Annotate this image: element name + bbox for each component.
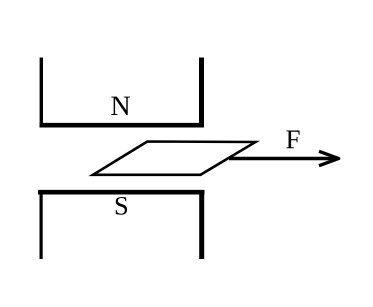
force arrow shaft — [229, 157, 334, 161]
label N — [111, 97, 130, 115]
label S — [116, 197, 127, 215]
magnet S-pole top horizontal — [38, 190, 205, 195]
force arrowhead — [319, 151, 339, 165]
conducting plate (parallelogram) — [93, 142, 256, 175]
label F — [286, 131, 299, 149]
magnet S-pole right vertical — [199, 190, 204, 259]
magnet N-pole bottom horizontal — [40, 123, 205, 128]
magnet S-pole left vertical — [39, 190, 42, 259]
magnet N-pole left vertical — [40, 58, 43, 128]
magnet N-pole right vertical — [199, 58, 204, 128]
